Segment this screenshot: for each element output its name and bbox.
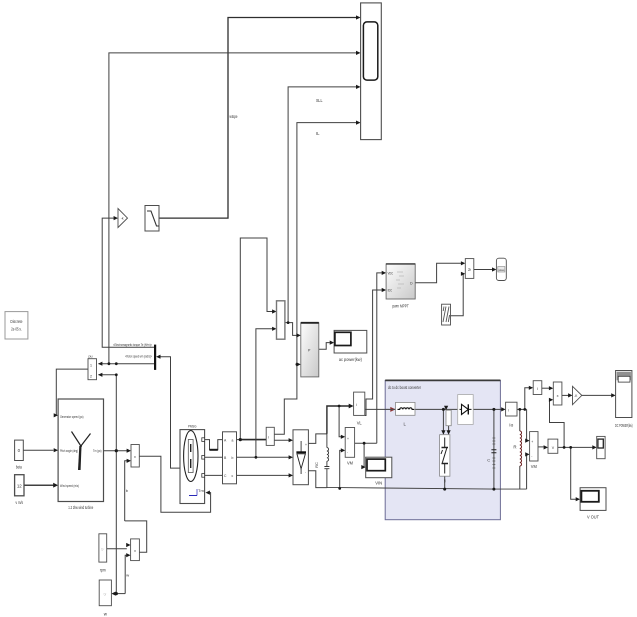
constant beta — [15, 440, 24, 469]
wire wm: bus selector to divide block in1 — [99, 363, 155, 365]
svg-text:Generator speed (pu): Generator speed (pu) — [60, 414, 84, 419]
wire pulses tag to IGBT gate — [448, 426, 450, 433]
wire dc plus rail up to VL — [327, 406, 351, 434]
wire SLL riser to scope in3 — [288, 87, 357, 323]
wire capacitor branch — [493, 409, 495, 489]
svg-text:Tm (pu): Tm (pu) — [93, 448, 102, 453]
svg-text:PMSG: PMSG — [188, 424, 197, 429]
wire pwm duty output to relational in1 — [415, 263, 463, 282]
inductor L — [396, 402, 416, 426]
wire sawtooth to relational in2 — [451, 274, 464, 316]
wire PMSG phase C to VI measurement — [205, 474, 223, 476]
svg-text:ac power(kw): ac power(kw) — [339, 357, 363, 362]
svg-text:b: b — [232, 456, 234, 460]
wire mux output to SLL riser — [285, 322, 288, 324]
svg-text:V OUT: V OUT — [587, 515, 599, 520]
gain G1 — [118, 209, 128, 228]
wire M2 in2 from product loop — [125, 461, 128, 521]
wire VM2 output to V conversion — [538, 446, 544, 448]
wire constant v to turbine wind-speed input — [24, 484, 54, 486]
svg-text:-k: -k — [121, 217, 124, 221]
svg-text:<Electromagnetic torque Te (N*: <Electromagnetic torque Te (N*m)> — [113, 342, 152, 347]
svg-text:beta: beta — [16, 465, 22, 470]
current measurement Io — [506, 402, 517, 427]
current measurement CM1 — [266, 427, 274, 445]
block M2 torque combine — [131, 445, 139, 468]
svg-text:Io: Io — [509, 423, 514, 428]
scope VIN — [366, 457, 392, 485]
relational operator GE1 — [465, 259, 474, 279]
svg-text:dc to dc boost converter: dc to dc boost converter — [388, 385, 421, 390]
svg-text:v m/s: v m/s — [16, 500, 24, 505]
wire Vin riser to pwm VDC — [377, 273, 384, 443]
wire VI-B to rectifier — [237, 456, 292, 458]
wire divide in2 from long vertical — [99, 374, 117, 376]
wire inductor to diode — [415, 408, 458, 410]
svg-text:x: x — [134, 549, 136, 553]
wire I conv to product in1 — [542, 387, 551, 389]
repeating sequence sawtooth — [442, 304, 451, 325]
wire w up to product P2 in2 — [125, 555, 127, 593]
display Vdc — [597, 436, 605, 458]
wire gain to DC power display — [582, 394, 614, 396]
wire VI-A thick part — [240, 439, 266, 441]
wire VI-C to rectifier — [237, 474, 292, 476]
svg-text:12: 12 — [17, 484, 22, 489]
wire VI-A to current measurement block — [237, 439, 267, 441]
series RLC branch RC1 — [314, 434, 329, 488]
wire SLL tap to power block in1 — [288, 323, 298, 336]
wire gate branch down — [442, 409, 444, 432]
svg-text:Pitch angle (deg): Pitch angle (deg) — [60, 448, 78, 453]
svg-text:1.2 2kw wind turbine: 1.2 2kw wind turbine — [68, 505, 93, 510]
voltage measurement VM1 — [345, 428, 354, 466]
constant v wind speed — [15, 475, 24, 505]
wire current meas output to rectifier A — [274, 439, 291, 441]
svg-text:+: + — [305, 443, 307, 447]
svg-text:g: g — [444, 479, 446, 483]
svg-text:x: x — [557, 394, 559, 398]
scope V OUT — [580, 488, 606, 520]
wire tap to VM1 plus input — [339, 406, 342, 437]
svg-text:-: - — [305, 470, 306, 474]
wire diode output to Io — [473, 408, 504, 410]
signal label Tm blue — [189, 488, 204, 496]
wire V tap up to product in2 — [550, 400, 565, 448]
wire rectifier minus output — [308, 471, 327, 488]
conversion block KI — [533, 381, 542, 395]
voltage measurement VM2 Vout — [530, 432, 538, 469]
conversion block KV — [548, 439, 558, 453]
svg-text:a: a — [232, 439, 234, 443]
wire divide output to turbine generator-speed input — [55, 369, 89, 415]
scope ac power — [334, 330, 367, 362]
wire phase B voltage tap up to mux in2 — [256, 329, 274, 458]
red arrowhead into inductor — [390, 407, 395, 412]
svg-text:C: C — [487, 458, 490, 463]
gain block G2 — [573, 386, 582, 404]
powergui block Discrete — [5, 312, 28, 339]
wire tap up to I conversion block — [525, 388, 530, 410]
svg-text:pu: pu — [89, 355, 93, 359]
wire M2 output to PMSG Tm port — [139, 456, 210, 512]
mux MX1 — [277, 301, 285, 339]
product block PR1 — [553, 382, 562, 405]
wire dc minus rail — [327, 488, 527, 490]
divide block D1 — [88, 355, 97, 380]
resistor R — [513, 431, 521, 466]
svg-text:2e-05 s.: 2e-05 s. — [11, 326, 22, 331]
wire V tap down to VOUT scope — [571, 447, 578, 499]
wire product to gain — [562, 394, 571, 396]
svg-text:2: 2 — [90, 375, 92, 379]
wire turbine Tm output to block M2 in1 — [104, 450, 128, 452]
wire V conversion output to display — [558, 446, 594, 448]
wire VL lower port to pwm IDC riser — [365, 290, 384, 416]
wire rectifier plus output — [308, 434, 327, 444]
svg-text:☞: ☞ — [101, 547, 105, 552]
wire wm tap up to scope in2 — [109, 53, 357, 364]
svg-text:wtspe: wtspe — [230, 114, 238, 119]
wire Vin tap down to VIN scope — [363, 443, 365, 467]
wire power block output to ac power scope — [319, 343, 330, 350]
svg-text:R: R — [513, 445, 516, 450]
wire rpm block to product P2 in1 — [107, 548, 127, 550]
wire PMSG m port to bus selector — [159, 357, 181, 468]
svg-text:IDC: IDC — [388, 289, 393, 293]
wire phase A voltage tap up loop to mux in1 — [240, 238, 274, 440]
svg-text:☞: ☞ — [104, 592, 108, 597]
wire Te: bus selector to gain G1 to saturation to scope input 1 — [102, 218, 154, 347]
wire PMSG phase B to VI measurement — [205, 456, 223, 458]
goto tag pulses — [496, 258, 506, 280]
svg-text:VIN: VIN — [375, 481, 382, 486]
scope SC1 four-input — [361, 3, 382, 140]
power computation block PQ1 — [301, 323, 319, 377]
three-phase VI measurement block VI1 — [223, 432, 237, 484]
svg-text:VM: VM — [531, 464, 537, 469]
svg-text:pulses: pulses — [498, 268, 505, 272]
wire VL output into boost inductor — [365, 408, 396, 410]
svg-text:-: - — [531, 454, 532, 458]
wire VM1 output — [355, 442, 377, 444]
wind turbine block WT1 — [58, 399, 103, 510]
svg-text:x: x — [134, 455, 136, 459]
wire PMSG phase A to VI measurement with jog — [205, 440, 223, 450]
wire minus tap to VM1 minus input — [340, 450, 342, 488]
wire R branch top — [519, 409, 521, 431]
wire saturation output loop to scope in1 — [159, 18, 357, 219]
wire long vertical w-signal — [115, 375, 117, 594]
display DC POWER — [615, 371, 633, 429]
svg-text:Discrete: Discrete — [10, 319, 22, 324]
svg-text:Tm: Tm — [198, 488, 204, 493]
wire product P2 output loop up — [125, 521, 147, 552]
wire jog thick segment — [210, 449, 218, 451]
svg-text:Wind speed (m/s): Wind speed (m/s) — [60, 483, 79, 488]
svg-text:VDC: VDC — [388, 272, 394, 276]
svg-text:DC POWER(kw): DC POWER(kw) — [615, 423, 633, 428]
inline measurement block VL — [354, 392, 365, 425]
svg-text:+: + — [531, 440, 533, 444]
svg-text:SLL: SLL — [316, 98, 323, 103]
svg-text:+: + — [347, 437, 349, 441]
svg-text:w: w — [126, 573, 129, 578]
svg-text:VL: VL — [357, 421, 363, 426]
from tag pulses vertical — [446, 410, 451, 426]
svg-text:VM: VM — [347, 461, 353, 466]
rectifier universal bridge UB1 — [293, 430, 308, 485]
diode block D2 — [458, 395, 474, 425]
wire current meas i output up — [274, 123, 357, 435]
wire rail up to VM2 minus input — [525, 454, 527, 489]
svg-text:<Rotor speed wm (rad/s)>: <Rotor speed wm (rad/s)> — [125, 354, 152, 359]
bus selector BS1 — [154, 345, 156, 370]
wire Io output — [517, 408, 527, 410]
wire VL to L over subsystem — [385, 408, 395, 410]
IGBT switch block Q1 — [440, 435, 450, 483]
saturation block SAT1 — [145, 206, 159, 232]
svg-text:IL: IL — [316, 131, 320, 136]
wire w signal into w display — [114, 593, 126, 595]
svg-text:rpm: rpm — [100, 568, 106, 573]
wire i tap into power block in2 — [297, 363, 298, 365]
svg-text:I: I — [537, 387, 538, 391]
svg-text:-: - — [347, 451, 348, 455]
wire R branch bottom — [519, 466, 521, 489]
subsystem area dc-dc boost converter — [385, 380, 500, 519]
svg-text:1: 1 — [90, 364, 92, 368]
svg-text:≥: ≥ — [468, 267, 471, 273]
svg-text:c: c — [232, 474, 234, 478]
capacitor C — [487, 438, 496, 468]
product block P2 — [131, 539, 140, 561]
wire IGBT emitter down to rail — [444, 476, 446, 489]
PMSG machine block — [180, 424, 205, 504]
w display block — [99, 580, 111, 617]
svg-text:RC: RC — [314, 462, 319, 468]
wire relational output to pulses goto — [474, 269, 495, 271]
svg-text:pwm MPPT: pwm MPPT — [392, 304, 409, 309]
rpm tag block — [99, 534, 107, 573]
wire into VM2 plus input — [525, 409, 527, 440]
pwm MPPT block — [386, 264, 415, 309]
wire constant beta to turbine pitch input — [23, 449, 53, 451]
